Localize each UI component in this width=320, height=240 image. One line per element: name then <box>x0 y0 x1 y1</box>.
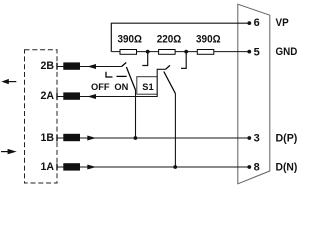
choke row 2A <box>63 92 80 99</box>
arrowhead row 2A (left) <box>87 94 96 99</box>
junction node B dot <box>184 50 188 54</box>
choke row 1A <box>63 163 80 170</box>
pin 6 dot <box>247 21 251 25</box>
svg-text:8: 8 <box>254 162 260 174</box>
svg-text:390Ω: 390Ω <box>117 34 142 46</box>
svg-text:6: 6 <box>254 17 260 29</box>
tick row 2B <box>56 63 58 70</box>
svg-text:ON: ON <box>114 82 128 92</box>
junction node A dot <box>146 50 150 54</box>
pin 8 dot <box>247 165 251 169</box>
svg-text:390Ω: 390Ω <box>196 34 221 46</box>
wire row 1B to pin 3 <box>57 137 249 139</box>
svg-text:3: 3 <box>254 133 260 145</box>
svg-text:2A: 2A <box>41 90 55 102</box>
bus direction arrow lower left (points right) <box>1 149 17 154</box>
resistor R1 390 ohm <box>120 50 137 55</box>
wire row 2A + riser to switch pole 2 <box>57 69 166 96</box>
arrowhead row 2B (left) <box>87 64 96 69</box>
svg-text:1A: 1A <box>41 161 55 173</box>
switch S1 pole 1: blade <box>126 67 135 90</box>
svg-text:D(N): D(N) <box>276 162 298 174</box>
switch S1 pole 1: vertical to 1B junction <box>135 90 137 138</box>
wire row 1A to pin 8 <box>57 166 249 168</box>
junction dot on 1A <box>173 165 177 169</box>
svg-text:5: 5 <box>254 47 260 59</box>
tick row 1A <box>56 164 58 171</box>
junction dot on 1B <box>134 136 138 140</box>
svg-text:S1: S1 <box>142 82 153 92</box>
wire: top rail pin6 VP <box>111 23 249 51</box>
switch S1 pole 2: vertical to 1A junction <box>174 94 176 168</box>
arrowhead row 1A (right) <box>87 165 96 170</box>
pin 3 dot <box>247 136 251 140</box>
dashed bus-cable box <box>25 50 58 183</box>
arrowhead row 1B (right) <box>87 136 96 141</box>
choke row 2B <box>63 62 80 69</box>
switch S1 pole 1: fixed contact tick <box>122 63 127 67</box>
svg-text:2B: 2B <box>41 60 55 72</box>
svg-text:VP: VP <box>276 17 289 29</box>
switch S1 pole 2: fixed contact tick <box>166 65 171 69</box>
svg-text:GND: GND <box>276 46 298 58</box>
choke row 1B <box>63 134 80 141</box>
bus direction arrow upper left (points left) <box>1 79 16 84</box>
resistor R2 220 ohm <box>159 50 176 55</box>
tick row 1B <box>56 135 58 142</box>
resistor R3 390 ohm <box>197 50 214 55</box>
svg-text:220Ω: 220Ω <box>157 34 182 46</box>
pin 5 dot <box>247 50 251 54</box>
node A vertical + contact stub <box>142 52 147 66</box>
tick row 2A <box>56 93 58 100</box>
svg-text:D(P): D(P) <box>276 133 298 145</box>
S1 housing box <box>137 77 157 95</box>
connector body (D-SUB outline) <box>238 4 270 184</box>
OFF position indicator <box>106 72 113 77</box>
wire row 2B <box>57 66 122 68</box>
svg-text:1B: 1B <box>41 132 55 144</box>
wire: resistor row / pin5 GND <box>111 51 249 53</box>
svg-text:OFF: OFF <box>91 82 110 92</box>
switch S1 pole 2: blade <box>164 72 176 94</box>
ON position dash <box>117 75 127 77</box>
node B vertical + contact stub <box>181 52 186 69</box>
